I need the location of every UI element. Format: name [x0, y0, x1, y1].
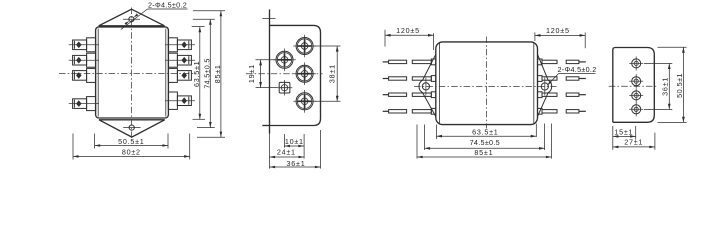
view 2: ground terminal (square with circle) [277, 80, 292, 96]
view 4: wire hole 1 [629, 56, 643, 70]
view 4: dimension 27 line [613, 146, 655, 149]
view 3: right mounting ear [538, 54, 552, 116]
view 1: vertical centerline [131, 8, 133, 141]
view 1: dimension 50.5 line [95, 144, 168, 147]
view 3: left lead wire 1 [383, 59, 436, 65]
view 3: dimension 120 right text [546, 26, 570, 35]
svg-text:63.5±1: 63.5±1 [472, 128, 498, 137]
view 1: dimension 74.5 extension lines [193, 19, 215, 127]
view 3: horizontal centerline [414, 85, 557, 87]
view 2: dimension 36 line [270, 166, 321, 169]
view 1: right faston terminal 4 [165, 92, 195, 109]
view 2: bottom edge overshoot [262, 125, 269, 127]
view 3: dimension 120 right extension lines [535, 32, 585, 48]
svg-text:120±5: 120±5 [396, 26, 420, 35]
svg-text:38±1: 38±1 [328, 64, 337, 83]
view 2: dimension 38 line [336, 46, 339, 101]
view 4: dimension 15 text [614, 128, 633, 137]
view 2: dimension 19 line [259, 60, 262, 88]
svg-text:63.5±1: 63.5±1 [192, 61, 201, 87]
view 1: dimension 80 text [122, 148, 141, 157]
view 1: dimension 80 extension lines [73, 134, 190, 160]
svg-text:85±1: 85±1 [213, 64, 222, 83]
svg-text:120±5: 120±5 [546, 26, 570, 35]
view 2: dimension 38 extension lines [314, 46, 341, 101]
view 2: dimension 36 extension line [320, 130, 322, 169]
view 1: case seam line right [165, 29, 167, 117]
view 4: dimension 15 line [613, 135, 636, 138]
svg-text:50.5±1: 50.5±1 [675, 73, 684, 98]
view 2: top datum tick [262, 18, 275, 20]
view 1: dimension 63.5 extension lines [192, 27, 205, 120]
view 3: left lead wire 2 [383, 76, 436, 82]
view 4: horizontal centerline [609, 85, 658, 87]
view 1: dimension 80 line [73, 155, 190, 158]
view 4: wire hole 2 [629, 74, 643, 88]
view 1: label 2-dia4.5 text [148, 1, 187, 10]
view 2: dimension 10 text [285, 137, 304, 146]
view 2: dimension 36 text [287, 159, 306, 168]
view 2: dimension 24 line [270, 156, 305, 159]
view 3: dimension 85 extension lines [417, 124, 552, 159]
view 3: case seam line right [533, 43, 535, 124]
view 3: label 2-dia4.5 text [557, 65, 596, 74]
view 1: right faston terminal 1 [165, 38, 195, 52]
view 1: dimension 50.5 text [118, 137, 144, 146]
view 3: wired filter body outline [436, 42, 538, 125]
view 3: dimension 63.5 extension lines [436, 124, 536, 140]
view 3: dimension 120 left extension lines [385, 30, 434, 50]
view 1: dimension 85 extension lines [193, 11, 225, 138]
view 1: dimension 50.5 extension lines [95, 134, 168, 149]
view 2: horizontal centerline [246, 73, 323, 75]
view 1: right faston terminal 2 [165, 53, 195, 67]
svg-text:24±1: 24±1 [277, 148, 296, 157]
view 2: screw terminal lower-right [293, 90, 316, 113]
view 2: dimension 19 text [247, 64, 256, 83]
view 4: dimension 50.5 extension lines [658, 47, 687, 122]
view 1: dimension 74.5 line [209, 19, 212, 127]
view 1: label 2-dia4.5 leader line [121, 9, 188, 30]
view 1: left faston terminal 2 [69, 53, 99, 67]
view 4: wire hole 3 [629, 88, 643, 102]
view 4: dimension 50.5 line [682, 47, 685, 122]
view 2: screw terminal upper-left [273, 49, 296, 72]
svg-text:15±1: 15±1 [614, 128, 633, 137]
view 3: right ear hole 4.5mm [541, 78, 548, 96]
view 2: dimension 38 text [328, 64, 337, 83]
view 4: dimension 36 text [660, 77, 669, 96]
view 4: end plate outline [613, 48, 655, 123]
view 2: dimension 10 extension lines [284, 134, 304, 159]
view 3: left lead wire 4 [383, 108, 436, 114]
svg-text:74.5±0.5: 74.5±0.5 [470, 138, 500, 147]
view 1: case seam line left [97, 29, 99, 117]
view 3: dimension 74.5 text [470, 138, 500, 147]
svg-text:2-Φ4.5±0.2: 2-Φ4.5±0.2 [557, 65, 596, 74]
view 3: right lead wire 2 [538, 76, 586, 82]
view 2: screw terminal upper-right [293, 35, 316, 58]
svg-text:10±1: 10±1 [285, 137, 304, 146]
view 1: dimension 85 line [220, 11, 223, 138]
view 4: dimension 36 line [668, 63, 671, 109]
view 3: right lead wire 3 [538, 92, 586, 98]
view 1: left faston terminal 3 [73, 68, 96, 82]
view 3: dimension 74.5 line [425, 147, 545, 150]
view 4: dimension 36 extension lines [644, 63, 672, 109]
view 3: dimension 120 left line [385, 34, 434, 37]
view 3: dimension 63.5 line [436, 135, 536, 138]
view 4: dimension 27 text [624, 138, 643, 147]
svg-text:36±1: 36±1 [287, 159, 306, 168]
view 3: left mounting ear [419, 54, 436, 116]
view 1: top mounting hole 4.5mm [123, 17, 140, 22]
view 1: left faston terminal 1 [69, 38, 99, 52]
view 3: left lead wire 3 [383, 92, 436, 98]
view 2: dimension 24 text [277, 148, 296, 157]
view 4: dimension 27 extension line [654, 133, 656, 150]
view 1: filter with faston terminals - case body outline [96, 27, 169, 118]
svg-text:27±1: 27±1 [624, 138, 643, 147]
view 4: dimension 50.5 text [675, 73, 684, 98]
view 1: horizontal centerline [59, 72, 196, 74]
view 1: left faston terminal 4 [69, 97, 99, 111]
view 2: left edge with overshoot [269, 9, 271, 133]
view 1: dimension 85 text [213, 64, 222, 83]
view 3: vertical centerline [486, 37, 488, 129]
view 2: dimension 36 left extension [269, 134, 271, 169]
svg-text:19±1: 19±1 [247, 64, 256, 83]
view 4: wire hole 4 [629, 102, 643, 116]
view 3: dimension 85 line [417, 156, 552, 159]
view 2: dimension 19 extension lines [256, 60, 278, 88]
view 3: dimension 63.5 text [472, 128, 498, 137]
view 3: dimension 85 text [474, 148, 493, 157]
view 1: top mounting flange (triangle) [99, 9, 165, 26]
view 3: dimension 74.5 extension lines [425, 124, 545, 151]
view 1: dimension 63.5 text [192, 61, 201, 87]
view 1: dimension 63.5 line [199, 27, 202, 120]
view 1: bottom mounting hole 4.5mm [123, 125, 140, 130]
view 3: right lead wire 4 [538, 108, 586, 114]
view 2: screw terminal middle-right [293, 62, 316, 85]
svg-text:2-Φ4.5±0.2: 2-Φ4.5±0.2 [148, 1, 187, 10]
svg-text:50.5±1: 50.5±1 [118, 137, 144, 146]
svg-text:74.5±0.5: 74.5±0.5 [202, 58, 211, 88]
view 2: dimension 10 line [284, 145, 304, 148]
view 3: case seam line left [439, 43, 441, 124]
view 3: label 2-dia4.5 leader [547, 74, 595, 86]
view 3: right lead wire 1 [538, 59, 586, 65]
view 1: dimension 74.5 text [202, 58, 211, 88]
svg-text:85±1: 85±1 [474, 148, 493, 157]
view 4: dimension 15 extension lines [613, 126, 636, 150]
view 3: dimension 120 left text [396, 26, 420, 35]
view 3: left ear hole 4.5mm [422, 78, 429, 96]
view 2: end face outline (rounded right corners) [270, 25, 321, 125]
view 1: right faston terminal 3 [168, 68, 191, 82]
view 3: dimension 120 right line [535, 34, 585, 37]
svg-text:80±2: 80±2 [122, 148, 141, 157]
svg-text:36±1: 36±1 [660, 77, 669, 96]
view 1: bottom mounting flange (triangle) [99, 120, 165, 137]
